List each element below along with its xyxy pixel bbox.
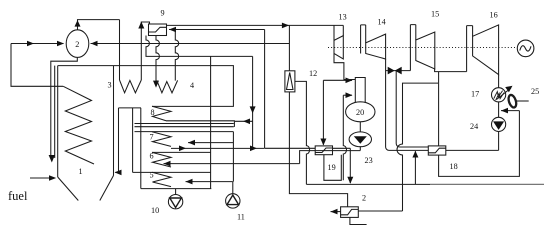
hotwell ellipse 20 <box>346 102 375 122</box>
economizer 6 zigzag <box>152 152 171 167</box>
wire turbine 16 exhaust to cooler 17 <box>498 75 500 88</box>
pump 10 (circle with triangle) <box>175 189 177 195</box>
boiler top line (node to gas duct) <box>58 66 234 107</box>
heater 18 (rect with zigzag) <box>428 146 446 155</box>
wire valve 12 outlet to cooling line <box>295 81 310 184</box>
wire heater 2 outlet left arrow <box>331 211 341 213</box>
svg-text:4: 4 <box>190 81 194 90</box>
condensate pump 24 (circle with filled triangle) <box>492 117 506 131</box>
wire makeup riser with up arrow into feed line <box>414 151 416 184</box>
svg-text:13: 13 <box>339 13 347 22</box>
furnace 1 left wall <box>57 66 59 177</box>
svg-text:19: 19 <box>328 163 336 172</box>
letdown valve 12 body (rect with triangle) <box>288 25 290 70</box>
wire extraction to heater 18 <box>438 72 440 146</box>
fan 25 (filled tilted ellipse with line) <box>507 94 517 108</box>
gas duct pass 3 right side with up arrow <box>141 22 149 80</box>
turbine 13 (HP trapezoid) <box>334 36 343 59</box>
svg-text:23: 23 <box>365 156 373 165</box>
condenser riser rect to hotwell <box>355 78 365 103</box>
wire extraction down to heater 19 with arrow <box>322 80 324 145</box>
wire heater 19 drain loop box <box>324 155 341 181</box>
superheater 8 zigzag <box>152 106 171 121</box>
air heater 9 (rect with diagonal) <box>149 24 167 36</box>
wire feedwater upper line through heater 19 <box>265 147 350 149</box>
wire valve 12 drop to gland heater 2 <box>289 92 347 207</box>
svg-text:12: 12 <box>309 69 317 78</box>
svg-text:20: 20 <box>356 108 364 117</box>
svg-text:8: 8 <box>151 108 155 117</box>
wire coil 6 outlet to riser with right arrows <box>171 147 265 149</box>
wire coil 8 upper line to cap <box>166 121 234 127</box>
wire into coil 6 with left arrow (from heater 19 loop) <box>164 163 300 165</box>
furnace 1 hopper right slant <box>100 176 114 201</box>
furnace 1 right wall <box>113 66 115 176</box>
wire lower line from coil 6 to vessel 23 drain <box>300 151 361 164</box>
wire fan 2 bottom recirculation down-left <box>51 57 78 158</box>
wire drum steam line with left arrow <box>235 120 253 122</box>
heater 19 (rect with zigzag) <box>315 146 332 155</box>
svg-text:25: 25 <box>531 87 539 96</box>
turbine 14 inlet duct <box>361 25 366 54</box>
wire fan 2 right inlet long line <box>91 43 290 45</box>
wire vessel 23 drain <box>359 147 361 151</box>
turbine 16 inlet duct <box>467 26 473 72</box>
vessel 23 ellipse with filled triangle <box>349 132 371 147</box>
wire recirc second line <box>54 66 56 158</box>
wire 9 outlet gas line B (flag 4 left side, hops, down arrow) <box>156 36 159 87</box>
svg-text:18: 18 <box>450 162 458 171</box>
shaft dashed line <box>328 47 517 49</box>
generator G (circle with sine) <box>517 40 534 57</box>
svg-text:7: 7 <box>150 133 154 142</box>
reheater 7 zigzag <box>152 132 171 147</box>
wire gas line C (flag 4 right side, hops) <box>175 30 178 81</box>
wire main steam line to turbine 13 <box>167 24 335 26</box>
wire crossover with stop valve (bowtie) to turbine 15 <box>386 70 411 72</box>
gas duct pass 3 W bottom <box>120 80 142 93</box>
gas duct pass 3 (banner with W bottom) left side <box>119 20 121 80</box>
wire fuel inlet arrow <box>30 177 55 179</box>
drum double line (capped right) <box>135 123 234 125</box>
svg-text:6: 6 <box>150 152 154 161</box>
economizer riser <box>264 30 266 149</box>
svg-text:10: 10 <box>151 206 159 215</box>
wire left loop down to furnace coil inlet <box>11 44 63 87</box>
wire fan 2 inlet from left loop <box>11 43 64 45</box>
svg-text:15: 15 <box>431 10 439 19</box>
furnace 1 hopper left slant <box>58 177 79 201</box>
turbine 13 inlet duct <box>334 25 343 40</box>
svg-text:3: 3 <box>108 81 112 90</box>
svg-text:24: 24 <box>470 122 478 131</box>
svg-text:1: 1 <box>79 167 83 176</box>
turbine 15 (IP trapezoid) <box>416 32 435 69</box>
gas duct pass 4 W bottom <box>157 80 178 92</box>
wire feedwater line from pump 24 through heater 18 <box>446 149 499 151</box>
wire between 20 and 23 <box>359 122 361 132</box>
wire into coil 7 with left arrow <box>188 132 233 182</box>
svg-text:5: 5 <box>150 171 154 180</box>
wire collector top line <box>135 131 234 133</box>
wire coil 6 top line <box>152 151 211 153</box>
wire turbine 13 exhaust elbow <box>334 54 355 80</box>
economizer 5 zigzag <box>152 172 171 186</box>
svg-text:11: 11 <box>237 213 245 222</box>
HRSG left wall <box>140 108 142 189</box>
wire extraction after valve down to heater 18 <box>396 71 428 147</box>
wire turbine 15 exhaust crossover to 16 <box>435 69 467 72</box>
wire coil 5 top line <box>133 171 211 173</box>
wire heater 19 vapor return riser with hop <box>343 95 346 180</box>
wire cooler 17 to pump 24 <box>498 102 500 117</box>
svg-text:2: 2 <box>75 40 79 49</box>
wire pump 24 discharge down to feed line <box>498 132 500 151</box>
wire feed drop to cooling line with down arrow <box>349 148 351 183</box>
svg-text:16: 16 <box>490 11 498 20</box>
furnace 1 water-wall zigzag coil <box>63 86 94 164</box>
turbine 14 (trapezoid) <box>366 34 386 59</box>
pump 11 (circle with triangle) <box>232 182 234 194</box>
svg-text:fuel: fuel <box>8 189 28 203</box>
wire fan 2 outlet up to top header <box>78 20 120 30</box>
gland heater 2 (rect with zigzag) <box>341 207 359 218</box>
wire condensate return arrow into main line <box>501 110 519 112</box>
gas recirculation duct below pass 3 <box>115 108 141 172</box>
wire turbine 14 exhaust downcomer <box>386 59 429 150</box>
wire heater 2 inlet from riser <box>358 210 402 212</box>
HRSG right wall <box>210 56 212 188</box>
fan 2 (flue gas recirculation fan, ellipse) <box>66 30 89 58</box>
wire into coil 5 with left arrow from pump 11 <box>186 181 233 183</box>
svg-text:14: 14 <box>378 18 386 27</box>
wire 9 outlet gas line A (hops) <box>146 36 253 57</box>
wire heater 2 drain stub <box>350 217 367 224</box>
svg-text:17: 17 <box>471 90 479 99</box>
svg-text:9: 9 <box>161 9 165 18</box>
turbine 16 (LP trapezoid) <box>473 25 499 75</box>
cooler 17 (circle with zigzag and arrow) <box>492 88 506 102</box>
turbine 15 inlet duct <box>410 25 415 71</box>
wire heater 2 riser from gland exchanger <box>397 83 438 211</box>
wire extraction 12 to deaerator riser with arrow <box>323 79 352 81</box>
wire gas downcomer with arrow <box>252 56 254 147</box>
svg-text:2: 2 <box>362 194 366 203</box>
wire into 9 from right (economizer riser) <box>169 29 265 31</box>
wire heater 18 drain to condensate return <box>439 111 520 177</box>
HRSG duct bottom <box>141 188 212 190</box>
